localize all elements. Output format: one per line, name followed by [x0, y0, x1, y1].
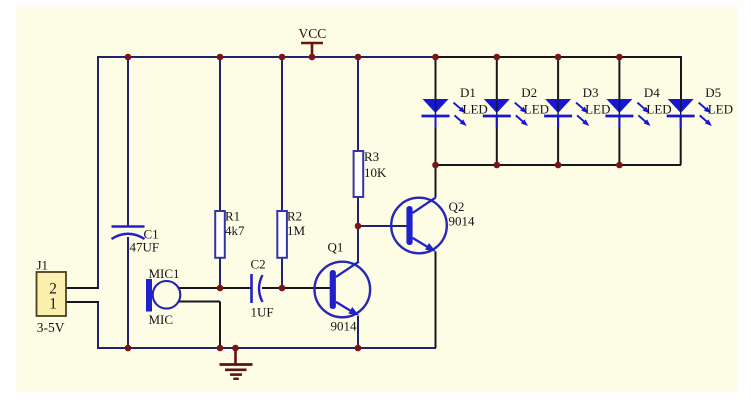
svg-text:R2: R2: [287, 209, 302, 224]
svg-text:Q1: Q1: [328, 240, 344, 255]
svg-text:Q2: Q2: [449, 199, 465, 214]
svg-text:9014: 9014: [331, 319, 358, 334]
svg-text:MIC1: MIC1: [149, 266, 180, 281]
svg-text:LED: LED: [524, 102, 549, 117]
svg-text:1: 1: [49, 296, 57, 313]
svg-text:J1: J1: [37, 258, 49, 273]
svg-text:C2: C2: [251, 257, 266, 272]
svg-text:LED: LED: [708, 102, 733, 117]
svg-text:LED: LED: [646, 102, 671, 117]
svg-text:3-5V: 3-5V: [37, 320, 65, 335]
svg-text:1UF: 1UF: [251, 305, 274, 320]
svg-text:47UF: 47UF: [130, 240, 160, 255]
svg-text:LED: LED: [585, 102, 610, 117]
svg-text:10K: 10K: [364, 165, 387, 180]
svg-text:R3: R3: [364, 149, 379, 164]
svg-text:MIC: MIC: [149, 312, 174, 327]
svg-text:D4: D4: [644, 85, 660, 100]
svg-text:1M: 1M: [287, 223, 306, 238]
svg-text:R1: R1: [225, 209, 240, 224]
svg-text:9014: 9014: [449, 214, 476, 229]
svg-text:LED: LED: [463, 102, 488, 117]
svg-text:D2: D2: [521, 85, 537, 100]
svg-text:D1: D1: [460, 85, 476, 100]
svg-text:4k7: 4k7: [225, 223, 245, 238]
svg-text:VCC: VCC: [299, 26, 327, 41]
svg-text:D5: D5: [705, 85, 721, 100]
svg-text:D3: D3: [583, 85, 599, 100]
